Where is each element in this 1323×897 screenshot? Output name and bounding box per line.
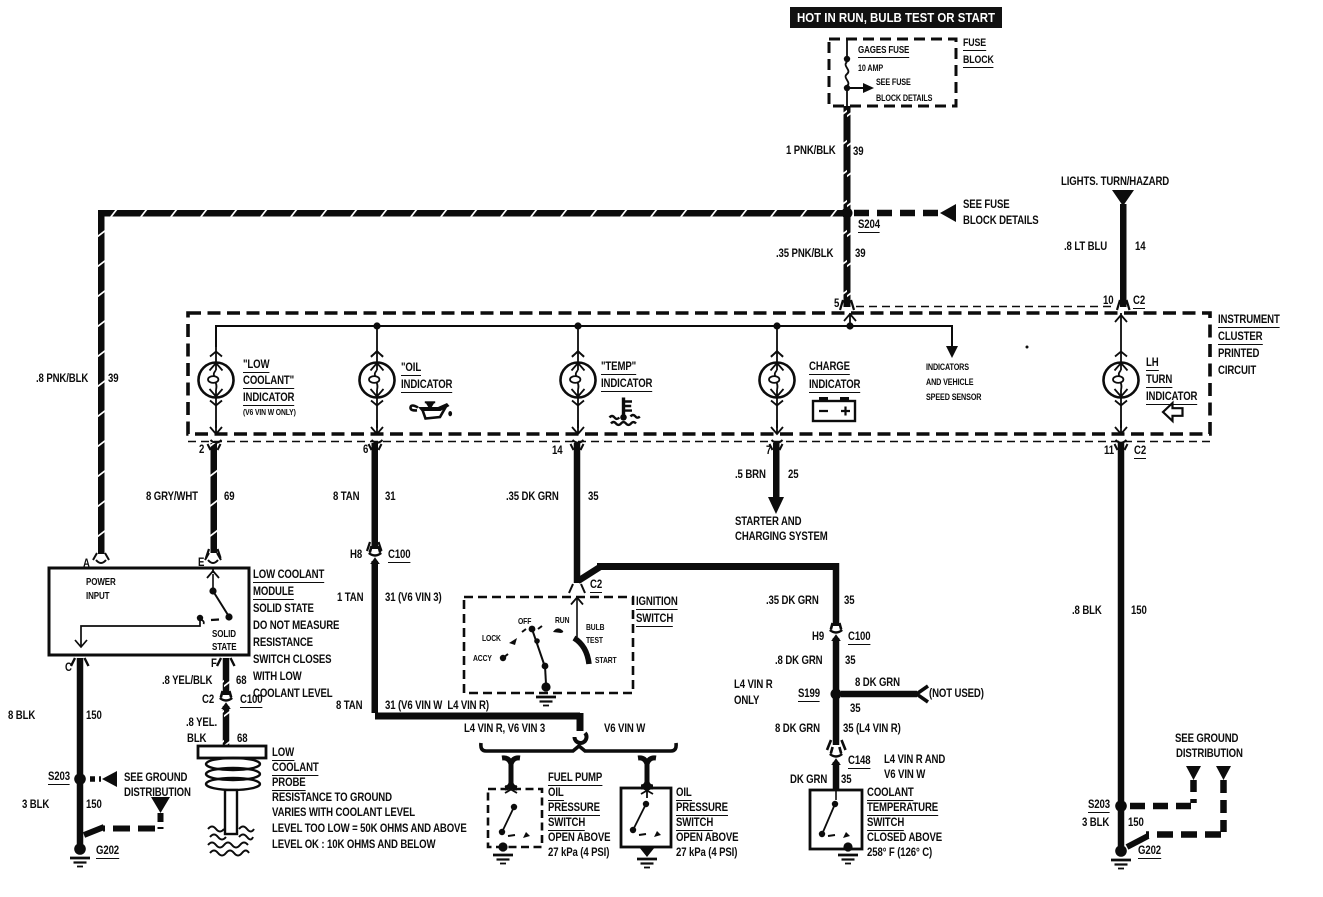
label: ACCY: [473, 653, 492, 664]
label: C148: [848, 755, 870, 766]
bus wire inside cluster: [216, 326, 952, 347]
label: COOLANT": [243, 375, 294, 386]
label: L4 VIN R: [734, 679, 773, 690]
label: "TEMP": [601, 361, 636, 372]
see ground distribution triangles (right): [1186, 766, 1201, 780]
lamp "OIL" indicator: [360, 352, 395, 406]
label: 39: [855, 248, 865, 259]
low coolant probe: [198, 746, 266, 758]
thick wire ignition C2 up to right branch: [578, 567, 600, 581]
op switch ground: [639, 847, 655, 857]
label: 35 (L4 VIN R): [843, 723, 901, 734]
wire .8 DK GRN to S199: [833, 638, 840, 691]
accy dot: [500, 655, 506, 661]
junction S204: [842, 208, 853, 219]
label: INDICATORS: [926, 362, 969, 373]
label: C2: [202, 694, 214, 705]
label: STARTER AND: [735, 516, 801, 527]
label: INDICATOR: [809, 379, 860, 390]
label: OFF: [518, 616, 531, 627]
label: 1 PNK/BLK: [786, 145, 836, 156]
label: FUEL PUMP: [548, 772, 602, 783]
label: STATE: [212, 642, 236, 653]
label: 31: [385, 491, 395, 502]
arrow to indicators and speed sensor: [946, 346, 958, 358]
low coolant module box: [49, 568, 249, 655]
label: LOW: [272, 747, 294, 758]
label: DISTRIBUTION: [1176, 748, 1243, 759]
lamp CHARGE indicator: [760, 352, 795, 406]
oil can icon: [418, 403, 450, 411]
label: SWITCH: [636, 613, 673, 624]
label: 31 (V6 VIN 3): [385, 592, 442, 603]
label: H9: [812, 631, 824, 642]
label: OPEN ABOVE: [548, 832, 610, 843]
label: LH: [1146, 357, 1159, 368]
left vertical wire .8 PNK/BLK down to module pin A: [98, 210, 105, 554]
label: AND VEHICLE: [926, 377, 973, 388]
label: 3 BLK: [22, 799, 49, 810]
label: LOW COOLANT: [253, 569, 324, 580]
pin 10 flare: [1117, 300, 1130, 310]
wire .8 BLK pin 11 to S203 right: [1118, 443, 1125, 803]
label: 150: [1128, 817, 1144, 828]
label: (V6 VIN W ONLY): [243, 407, 296, 418]
label: F: [211, 658, 217, 669]
pin F wire .8 YEL/BLK: [223, 658, 230, 695]
label: 27 kPa (4 PSI): [676, 847, 737, 858]
label: .35 DK GRN: [506, 491, 559, 502]
label: "OIL: [401, 362, 421, 373]
node dot pin5 feed: [846, 322, 853, 329]
label: BLOCK DETAILS: [963, 215, 1039, 226]
label: PROBE: [272, 777, 306, 788]
banner: HOT IN RUN, BULB TEST OR START: [790, 7, 1002, 28]
horizontal wire .8 PNK/BLK to left: [98, 210, 848, 217]
label: FUSE: [963, 38, 986, 49]
connector C2 thin dashed line (top, between pins 5 and 10): [856, 306, 1114, 308]
label: (NOT USED): [929, 688, 984, 699]
label: .8 DK GRN: [775, 655, 822, 666]
dashed wire triangle 2 to G202: [1220, 780, 1227, 832]
temp switch internals: [835, 790, 837, 800]
label: .8 BLK: [1072, 605, 1102, 616]
fp switch ground: [493, 855, 513, 864]
curl at wire end: [575, 733, 587, 743]
label: V6 VIN W: [884, 769, 925, 780]
wire elbow 8 TAN to split bar: [375, 713, 580, 720]
label: .8 YEL/BLK: [162, 675, 212, 686]
label: .8 YEL.: [186, 717, 217, 728]
label: TEST: [586, 635, 603, 646]
label: COOLANT: [867, 787, 914, 798]
label: BLK: [187, 733, 206, 744]
label: C100: [388, 549, 410, 560]
see ground distribution triangle (left): [151, 797, 170, 813]
fp switch internals: [511, 804, 517, 810]
label: INDICATOR: [1146, 391, 1197, 402]
label: PRESSURE: [676, 802, 728, 813]
dashed elbow to G202 (left): [158, 813, 164, 829]
label: C2: [590, 579, 602, 590]
label: BULB: [586, 622, 604, 633]
label: 10: [1103, 295, 1113, 306]
label: TURN: [1146, 374, 1172, 385]
wire 3 BLK S203 to G202: [77, 783, 84, 845]
label: 35: [845, 655, 855, 666]
label: SEE FUSE: [876, 77, 911, 88]
probe stem: [225, 790, 237, 834]
dashes to see-ground arrow: [90, 776, 101, 782]
off contact + lever to ground: [529, 626, 536, 633]
label: CIRCUIT: [1218, 365, 1256, 376]
pin A entry: [93, 553, 109, 563]
wire .8 YEL BLK to probe: [223, 706, 230, 746]
label: INDICATOR: [401, 379, 452, 390]
label: 14: [1135, 241, 1145, 252]
label: "LOW: [243, 359, 269, 370]
label: 8 DK GRN: [855, 677, 900, 688]
coolant temperature switch box: [810, 790, 862, 849]
label: S203: [1088, 799, 1110, 810]
label: 35: [850, 703, 860, 714]
label: .8 PNK/BLK: [36, 373, 88, 384]
label: ONLY: [734, 695, 759, 706]
label: CHARGE: [809, 361, 850, 372]
dashed wire S204 to see-fuse-details arrow: [854, 210, 941, 217]
label: L4 VIN R AND: [884, 754, 945, 765]
wire 8 DK GRN S199 to C148: [833, 697, 840, 745]
module switch internals: [207, 568, 219, 578]
starter arrow: [768, 497, 784, 514]
label: V6 VIN W: [604, 723, 645, 734]
label: .35 PNK/BLK: [776, 248, 833, 259]
node dot temp lamp: [574, 322, 581, 329]
connector H8 C100: [369, 546, 381, 564]
label: 25: [788, 469, 798, 480]
label: OPEN ABOVE: [676, 832, 738, 843]
label: OIL: [676, 787, 692, 798]
label: DO NOT MEASURE: [253, 620, 339, 631]
label: SEE GROUND: [1175, 733, 1238, 744]
split bar L4/V6: [481, 743, 676, 751]
temp switch ground: [838, 855, 858, 864]
thermometer icon: [622, 398, 625, 416]
label: 39: [853, 146, 863, 157]
pin E entry: [205, 553, 221, 563]
label: 31 (V6 VIN W&nbsp;&nbsp;L4 VIN R): [385, 700, 489, 711]
label: 68: [237, 733, 247, 744]
label: G202: [96, 845, 119, 856]
gages fuse symbol: [846, 40, 848, 57]
label: MODULE: [253, 586, 294, 597]
label: S199: [798, 688, 820, 699]
battery icon: [813, 401, 855, 421]
label: 35: [841, 774, 851, 785]
label: SWITCH: [867, 817, 904, 828]
label: 11: [1104, 445, 1114, 456]
label: .8 LT BLU: [1064, 241, 1107, 252]
label: 35: [588, 491, 598, 502]
wire 3 BLK to G202 right: [1118, 810, 1125, 850]
label: CLOSED ABOVE: [867, 832, 942, 843]
label: INPUT: [86, 591, 109, 602]
label: 14: [552, 445, 562, 456]
label: 3 BLK: [1082, 817, 1109, 828]
label: LEVEL TOO LOW = 50K OHMS AND ABOVE: [272, 823, 467, 834]
label: C100: [240, 694, 262, 705]
dashed wire S203 to triangle 1: [1130, 803, 1197, 810]
wire 8 GRY/WHT pin 2 to module E: [211, 443, 218, 553]
label: LEVEL OK : 10K OHMS AND BELOW: [272, 839, 435, 850]
node dot charge lamp: [773, 322, 780, 329]
label: 69: [224, 491, 234, 502]
label: 8 BLK: [8, 710, 35, 721]
wire 1 PNK/BLK fuse to S204: [844, 106, 851, 213]
label: 8 TAN: [333, 491, 359, 502]
label: WITH LOW: [253, 671, 302, 682]
label: DISTRIBUTION: [124, 787, 191, 798]
coolant waves: [208, 827, 254, 832]
lamp "TEMP" indicator: [561, 352, 596, 406]
lamp "LOW COOLANT" indicator: [199, 352, 234, 406]
connector stub above fuel pump switch: [502, 758, 520, 788]
pin C wire 8 BLK to S203: [77, 658, 84, 776]
fuel pump oil pressure switch dashed box: [488, 789, 542, 847]
label: 7: [766, 445, 771, 456]
label: PRESSURE: [548, 802, 600, 813]
ignition internals: feed line: [576, 598, 578, 637]
label: TEMPERATURE: [867, 802, 938, 813]
8 DK GRN (not used) stub: [841, 691, 917, 698]
label: 27 kPa (4 PSI): [548, 847, 609, 858]
fuse block dashed box: [829, 39, 956, 106]
label: IGNITION: [636, 596, 678, 607]
connector H9 C100: [830, 623, 842, 641]
lock tick: [509, 638, 517, 645]
label: 150: [1131, 605, 1147, 616]
label: START: [595, 655, 617, 666]
run tick: [553, 628, 563, 633]
label: SWITCH: [676, 817, 713, 828]
label: 10 AMP: [858, 63, 883, 74]
label: SEE FUSE: [963, 199, 1010, 210]
label: INSTRUMENT: [1218, 314, 1280, 325]
label: S203: [48, 771, 70, 782]
junction S203 (right): [1115, 800, 1127, 812]
label: 8 DK GRN: [775, 723, 820, 734]
label: SEE GROUND: [124, 772, 187, 783]
label: 6: [363, 444, 368, 455]
label: 150: [86, 710, 102, 721]
label: SOLID STATE: [253, 603, 314, 614]
label: 39: [108, 373, 118, 384]
op switch internals: [643, 801, 649, 807]
ignition entry arrow: [569, 584, 585, 593]
connector C2 C100 (module F): [220, 691, 232, 709]
bulb test / start arc: [574, 638, 589, 664]
ground G202 (right): [1115, 845, 1127, 857]
label: 35: [844, 595, 854, 606]
wire DK GRN to coolant temp switch: [833, 762, 840, 790]
label: CHARGING SYSTEM: [735, 531, 828, 542]
pin stub flares: [208, 444, 221, 450]
label: 1 TAN: [337, 592, 363, 603]
label: L4 VIN R, V6 VIN 3: [464, 723, 545, 734]
pin 5 entry arrow inside cluster: [844, 313, 856, 326]
label: BLOCK DETAILS: [876, 93, 932, 104]
wire .35 PNK/BLK S204 down to cluster pin 5: [844, 216, 851, 307]
label: COOLANT: [272, 762, 319, 773]
label: COOLANT LEVEL: [253, 688, 333, 699]
connector stub above oil pressure switch: [638, 758, 656, 787]
ignition switch dashed box: [464, 597, 633, 693]
ignition ground: [536, 697, 556, 706]
connector C148: [830, 747, 842, 765]
wire .35 DK GRN pin 14 down to ignition C2: [574, 443, 581, 583]
label: 150: [86, 799, 102, 810]
pin 5 flare: [840, 300, 854, 310]
lights turn/hazard triangle: [1112, 190, 1134, 206]
junction S199: [831, 689, 842, 700]
label: PRINTED: [1218, 348, 1259, 359]
label: SPEED SENSOR: [926, 392, 981, 403]
ground G202 (left): [74, 843, 86, 855]
label: 8 GRY/WHT: [146, 491, 198, 502]
label: C2: [1134, 445, 1146, 456]
connector C2 thin dashed line (bottom): [188, 441, 1212, 443]
label: 5: [834, 298, 839, 309]
label: VARIES WITH COOLANT LEVEL: [272, 807, 415, 818]
label: DK GRN: [790, 774, 827, 785]
label: C100: [848, 631, 870, 642]
label: .5 BRN: [735, 469, 766, 480]
node dot oil lamp: [373, 322, 380, 329]
label: 8 TAN: [336, 700, 362, 711]
wire .8 LT BLU down to cluster pin 10: [1120, 204, 1127, 307]
label: POWER: [86, 577, 116, 588]
label: 68: [236, 675, 246, 686]
label: C: [65, 662, 72, 673]
wire 8 TAN pin 6 to C100: [372, 443, 379, 549]
junction S203 (left): [74, 773, 86, 785]
see fuse block details arrow (inside fuse box): [850, 87, 864, 89]
label: 258&deg; F (126&deg; C): [867, 847, 932, 858]
label: RESISTANCE TO GROUND: [272, 792, 392, 803]
label: BLOCK: [963, 55, 994, 66]
label: INDICATOR: [601, 378, 652, 389]
label: RUN: [555, 615, 569, 626]
label: G202: [1138, 845, 1161, 856]
label: RESISTANCE: [253, 637, 313, 648]
instrument cluster dashed box: [188, 313, 1210, 434]
label: S204: [858, 219, 880, 230]
label: SWITCH: [548, 817, 585, 828]
label: GAGES FUSE: [858, 45, 909, 56]
label: E: [198, 557, 204, 568]
label: LOCK: [482, 633, 501, 644]
lamp LH TURN indicator: [1104, 352, 1139, 406]
starter wire .5 BRN pin 7: [773, 443, 780, 498]
stray dot artifact: [1026, 346, 1029, 349]
label: C2: [1133, 295, 1145, 306]
label: H8: [350, 549, 362, 560]
label: SWITCH CLOSES: [253, 654, 331, 665]
label: OIL: [548, 787, 564, 798]
label: .35 DK GRN: [766, 595, 819, 606]
label: SOLID: [212, 629, 236, 640]
LH turn arrow icon: [1163, 403, 1183, 421]
label: 2: [199, 444, 204, 455]
label: CLUSTER: [1218, 331, 1263, 342]
oil pressure switch box: [621, 788, 671, 847]
label: LIGHTS. TURN/HAZARD: [1061, 176, 1169, 187]
label: INDICATOR: [243, 392, 294, 403]
wire 1 TAN below C100: [372, 561, 379, 713]
label: A: [83, 558, 90, 569]
